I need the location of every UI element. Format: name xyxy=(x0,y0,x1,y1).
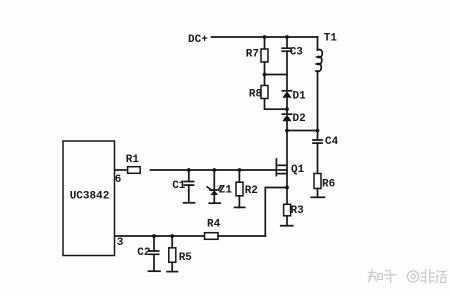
zener diode Z1 xyxy=(207,170,232,203)
wire C3 junction to D1 xyxy=(286,75,288,91)
svg-text:R2: R2 xyxy=(245,185,258,197)
transistor Q1 MOSFET xyxy=(276,159,304,176)
resistor R6 xyxy=(314,174,335,198)
resistor R4 xyxy=(205,219,221,240)
ground below Z1 xyxy=(209,202,220,204)
svg-text:DC+: DC+ xyxy=(188,34,208,46)
svg-text:T1: T1 xyxy=(324,32,338,44)
svg-text:Z1: Z1 xyxy=(219,185,233,197)
wire D2 to drain node xyxy=(286,121,288,130)
svg-text:C3: C3 xyxy=(290,46,304,58)
capacitor C2 xyxy=(137,236,158,271)
svg-text:C2: C2 xyxy=(137,247,150,259)
wire drain node to transformer xyxy=(287,130,318,132)
wire source to current sense loop xyxy=(265,188,287,237)
svg-text:R6: R6 xyxy=(322,178,335,190)
resistor R7 xyxy=(246,37,268,75)
wire D1 to D2 xyxy=(286,98,288,114)
wire pin6 stub xyxy=(115,169,128,171)
resistor R3 xyxy=(284,188,305,226)
svg-text:6: 6 xyxy=(115,174,122,186)
transformer T1 primary winding xyxy=(316,32,337,130)
node junction C1 xyxy=(187,168,191,172)
resistor R8 xyxy=(249,75,287,110)
ground below R6 xyxy=(311,196,324,198)
node junction top R7 xyxy=(263,35,267,39)
svg-text:D2: D2 xyxy=(293,113,306,125)
svg-text:R3: R3 xyxy=(291,205,305,217)
IC U1 UC3842 xyxy=(63,141,115,256)
svg-text:Q1: Q1 xyxy=(291,164,305,176)
node junction T1 bottom xyxy=(316,129,320,133)
svg-text:UC3842: UC3842 xyxy=(70,191,110,203)
svg-text:R4: R4 xyxy=(207,219,221,231)
svg-text:R5: R5 xyxy=(179,252,193,264)
wire pin3 line xyxy=(115,235,205,237)
resistor R5 xyxy=(169,236,193,272)
node junction top C3 xyxy=(285,35,289,39)
wire drain to source line xyxy=(286,131,288,188)
capacitor C3 xyxy=(282,37,303,75)
svg-text:R1: R1 xyxy=(126,154,140,166)
node junction R2 xyxy=(238,168,242,172)
ground below R5 xyxy=(167,271,177,273)
wire R7 bottom to C3 line xyxy=(265,74,288,76)
node junction C2 xyxy=(152,234,156,238)
node junction D1-D2 xyxy=(285,107,289,111)
capacitor C4 xyxy=(313,131,339,174)
svg-text:C4: C4 xyxy=(325,136,339,148)
diode D1 xyxy=(282,90,306,102)
wire DC+ rail xyxy=(212,36,318,38)
svg-text:R7: R7 xyxy=(246,49,259,61)
node drain junction xyxy=(285,129,289,133)
node junction R7 bottom xyxy=(263,73,267,77)
svg-text:D1: D1 xyxy=(293,90,307,102)
capacitor C1 xyxy=(172,170,193,203)
wire gate line xyxy=(151,169,276,171)
svg-text:R8: R8 xyxy=(249,89,263,101)
resistor R2 xyxy=(236,170,258,207)
node junction Z1 xyxy=(212,168,216,172)
svg-text:3: 3 xyxy=(117,237,124,249)
ground below C2 xyxy=(149,270,161,272)
ground below C1 xyxy=(184,202,195,204)
diode D2 xyxy=(282,113,305,125)
node source junction xyxy=(285,186,289,190)
resistor R1 xyxy=(126,154,140,174)
ground below R3 xyxy=(281,225,293,227)
wire R4 to source loop xyxy=(218,235,265,237)
node junction R5 xyxy=(170,234,174,238)
ground below R2 xyxy=(235,206,245,208)
svg-text:C1: C1 xyxy=(172,180,186,192)
